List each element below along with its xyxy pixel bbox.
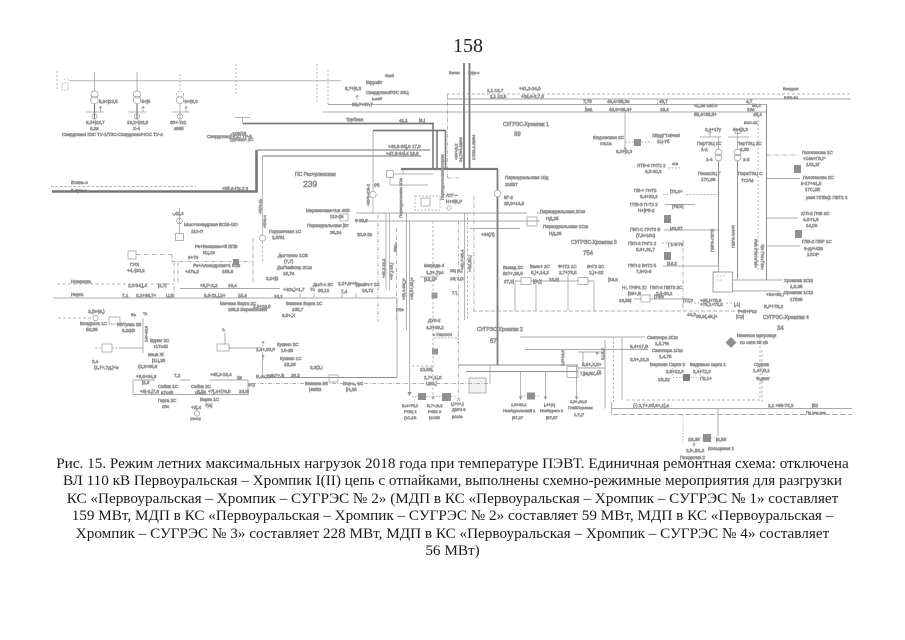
rotated labels right risers x464	[464, 213, 466, 320]
svg-text:ПЕРВ-ЗАРЯ: ПЕРВ-ЗАРЯ	[731, 225, 736, 248]
breaker frame near x390	[387, 171, 394, 178]
svg-text:|,1|: |,1|	[734, 302, 740, 307]
svg-text:1,8+30,1: 1,8+30,1	[511, 402, 527, 407]
wire: dashed sep y311	[473, 310, 750, 312]
svg-text:Варга 1С: Варга 1С	[200, 397, 220, 402]
svg-text:Галогенова 2С: Галогенова 2С	[803, 175, 834, 180]
svg-text:185,7: 185,7	[292, 307, 304, 312]
svg-text:Первоуральская 10д: Первоуральская 10д	[505, 175, 549, 180]
svg-text:3,4: 3,4	[92, 359, 99, 364]
svg-text:|(Р,)|: |(Р,)|	[533, 279, 542, 284]
wire: line y228	[470, 228, 520, 230]
wire: dashed stub top-left	[56, 71, 58, 89]
svg-text:Пеов13Ц Г: Пеов13Ц Г	[698, 171, 721, 176]
transformer T1 leg	[94, 81, 96, 91]
svg-text:НовВурегс 2: НовВурегс 2	[540, 408, 564, 413]
svg-text:ВВТулка 2В: ВВТулка 2В	[117, 322, 141, 327]
svg-text:88,12: 88,12	[318, 288, 330, 293]
svg-text:Вднег 2С: Вднег 2С	[150, 338, 170, 343]
svg-text:В,4+75,2: В,4+75,2	[402, 403, 419, 408]
svg-text:|1С2В: |1С2В	[429, 415, 440, 420]
svg-text:ДыЛ-о 2С: ДыЛ-о 2С	[313, 282, 334, 287]
svg-text:1ЛОР: 1ЛОР	[807, 252, 819, 257]
wire: dashdot y384 to left	[252, 383, 490, 385]
svg-text:Тз: Тз	[143, 311, 147, 316]
wire: T-bar Trubnaya tap	[235, 118, 250, 124]
wire: double-circuit bus lower y156	[263, 155, 422, 157]
svg-text:в,ваб: в,ваб	[372, 96, 383, 101]
PerTEC group: bars	[700, 136, 749, 138]
svg-text:Хромпик 2СШ: Хромпик 2СШ	[784, 278, 813, 283]
svg-text:(-) 2,7+,3б,5+,1|,а: (-) 2,7+,3б,5+,1|,а	[633, 403, 670, 408]
Revda cluster	[128, 251, 136, 259]
wire: thick Trubnaya line y123.5	[243, 123, 434, 125]
svg-text:|19,3: |19,3	[667, 261, 677, 266]
generator G3	[177, 114, 182, 119]
svg-text:18|: 18|	[583, 371, 589, 376]
svg-text:35,9(,48,|+: 35,9(,48,|+	[696, 314, 718, 319]
component box on line	[329, 375, 338, 382]
svg-text:|87,27: |87,27	[512, 415, 524, 420]
svg-text:6,5+,Х: 6,5+,Х	[282, 313, 295, 318]
transformer T3 windings	[176, 91, 183, 98]
svg-text:25,8+14,5: 25,8+14,5	[504, 201, 525, 206]
wire: main feeder vertical x406	[406, 213, 408, 330]
svg-text:48,9+38,4+: 48,9+38,4+	[609, 107, 632, 112]
svg-text:Мерида 4: Мерида 4	[424, 263, 445, 268]
svg-text:2,4+72,3: 2,4+72,3	[693, 369, 711, 374]
svg-text:Ре+Внешево+й ЕПВ: Ре+Внешево+й ЕПВ	[195, 243, 238, 249]
svg-text:ГВП-2 ВчТ2 5: ГВП-2 ВчТ2 5	[628, 263, 657, 268]
svg-text:+47а,2: +47а,2	[185, 269, 199, 274]
svg-text:Б2,85: Б2,85	[86, 327, 98, 332]
wire: dotted x683	[682, 415, 684, 445]
svg-text:Ц,В: Ц,В	[166, 293, 174, 298]
svg-text:5,9+j13,5: 5,9+j13,5	[99, 99, 118, 104]
wire: thick vertical pair x433/437	[432, 124, 434, 170]
wire: riser from circle to y262	[262, 241, 264, 262]
svg-text:ГлвВХоровая: ГлвВХоровая	[568, 405, 593, 410]
svg-text:1Ц-7б: 1Ц-7б	[657, 139, 670, 144]
svg-text:16,2: 16,2	[274, 294, 283, 299]
svg-text:(1С,1В: (1С,1В	[404, 415, 417, 420]
svg-text:3В| |4,|: 3В| |4,|	[450, 268, 462, 273]
svg-text:ДВР3 5: ДВР3 5	[452, 407, 466, 412]
svg-text:10,58|: 10,58|	[420, 367, 432, 372]
svg-text:ХБудГТзВче3: ХБудГТзВче3	[652, 133, 681, 138]
svg-text:7с: 7с	[310, 287, 316, 292]
svg-text:1-2: 1-2	[701, 147, 708, 152]
svg-text:РПВ| 2: РПВ| 2	[404, 409, 417, 414]
wire: dashed feeder x433	[432, 221, 434, 397]
transformer T2 leg	[136, 81, 138, 91]
svg-text:3,3(2,!: 3,3(2,!	[310, 365, 323, 370]
svg-text:28,2: 28,2	[291, 373, 300, 378]
svg-text:1В,22: 1В,22	[658, 377, 670, 382]
svg-text:+5,Р-Х,2: +5,Р-Х,2	[200, 283, 218, 288]
svg-text:-108/28: -108/28	[231, 131, 247, 136]
svg-text:(7,7): (7,7)	[284, 259, 294, 264]
svg-text:Верхняя Сарги 2: Верхняя Сарги 2	[650, 362, 686, 367]
wire: y414.5	[613, 414, 852, 416]
svg-text:18,4: 18,4	[228, 283, 237, 288]
svg-text:6,3в: 6,3в	[90, 126, 99, 131]
svg-text:2,8/31: 2,8/31	[272, 235, 285, 240]
svg-text:|72,3: |72,3	[683, 298, 693, 303]
wire: Pervouralskaya 1Ssh busbar y221	[356, 220, 540, 222]
svg-text:Вор-ь, 1С: Вор-ь, 1С	[343, 381, 364, 386]
svg-text:1,1 13,7: 1,1 13,7	[487, 88, 504, 93]
SUGRES-Khrompik 3 dashed enclosure	[473, 196, 475, 311]
svg-text:2,5+13,6: 2,5+13,6	[560, 350, 565, 366]
wire: thick line y130	[373, 130, 446, 132]
right feeder: Galogenova 1C dash-dot	[767, 154, 800, 156]
svg-text:N+j6,3: N+j6,3	[185, 99, 199, 104]
svg-text:6,2: 6,2	[197, 389, 204, 394]
wire: thick corridor vertical riser	[255, 150, 258, 192]
box component	[102, 344, 112, 352]
svg-text:43,4: 43,4	[660, 107, 669, 112]
svg-text:21557: 21557	[505, 182, 518, 187]
wire: PerTEC stubs	[709, 130, 738, 137]
svg-text:27,2|: 27,2|	[504, 279, 514, 284]
svg-text:ПВ-+ ПчТ2: ПВ-+ ПчТ2	[634, 188, 657, 193]
device: gray box	[432, 293, 438, 299]
svg-text:Ба: Ба	[131, 312, 137, 317]
right feeder: Galogenova 2C	[767, 178, 801, 180]
svg-text:+39,6-3,7,6: +39,6-3,7,6	[521, 94, 544, 99]
device: gray box feeder2	[664, 252, 671, 260]
svg-text:Горушечная 1С: Горушечная 1С	[269, 229, 302, 234]
svg-text:|49/52: |49/52	[309, 387, 322, 392]
svg-text:Кузино 2С: Кузино 2С	[277, 342, 299, 347]
svg-text:Трубная: Трубная	[346, 117, 364, 122]
svg-text:ПС Расчулинская: ПС Расчулинская	[295, 172, 336, 178]
device: gray glyph	[794, 165, 801, 173]
svg-text:г17с45: г17с45	[154, 344, 168, 349]
wire: double bus y371	[466, 371, 578, 373]
svg-text:15,4: 15,4	[238, 293, 247, 298]
wire: drop x718	[717, 409, 719, 437]
svg-text:5х7+,26,5: 5х7+,26,5	[503, 271, 523, 276]
svg-text:ДыГемВсер 2Сш: ДыГемВсер 2Сш	[277, 265, 312, 270]
svg-text:Н+|Р5-2: Н+|Р5-2	[638, 208, 655, 213]
svg-text:+4Ш,ВХ,|: +4Ш,ВХ,|	[467, 255, 472, 272]
wire: feeder row line y281	[515, 280, 594, 282]
svg-text:Гарга 2С: Гарга 2С	[158, 398, 177, 403]
svg-text:4,3+38,2: 4,3+38,2	[426, 325, 444, 330]
svg-text:17С,88: 17С,88	[701, 177, 716, 182]
svg-text:НД,25: НД,25	[549, 231, 562, 236]
svg-text:2,4+17у: 2,4+17у	[705, 127, 722, 132]
wire: riser x758 down	[757, 112, 759, 272]
svg-text:Х-4: Х-4	[133, 126, 141, 131]
svg-text:39,24: 39,24	[330, 230, 342, 235]
svg-text:+95,|+79,8: +95,|+79,8	[700, 298, 722, 303]
svg-text:+2|,4: +2|,4	[191, 405, 202, 410]
wire: y377 short bars	[133, 379, 248, 381]
node: junction circle on feeder	[494, 190, 501, 197]
svg-text:7,'|: 7,'|	[452, 290, 457, 295]
svg-text:СУГРЭС-Хромпик 1: СУГРЭС-Хромпик 1	[503, 122, 549, 128]
device: gray box feeder	[664, 215, 671, 223]
svg-text:1-2: 1-2	[743, 157, 750, 162]
svg-text:|2,9: |2,9	[142, 380, 150, 385]
svg-text:34,7/64-28/64: 34,7/64-28/64	[458, 137, 463, 162]
svg-text:ввыв Ж: ввыв Ж	[148, 352, 165, 357]
svg-text:2в: 2в	[237, 375, 243, 380]
svg-text:ДУ0-2: ДУ0-2	[428, 318, 441, 323]
svg-text:6,4+20,2: 6,4+20,2	[640, 194, 658, 199]
breaker boxes row	[521, 278, 531, 285]
svg-text:+48,5-34j,6 17,9: +48,5-34j,6 17,9	[388, 144, 421, 149]
wire: corner riser x612	[611, 402, 613, 415]
svg-text:5,9+,Х,5+: 5,9+,Х,5+	[582, 362, 602, 367]
svg-text:(7,5+10с): (7,5+10с)	[636, 233, 656, 238]
svg-text:+14в+ГВ,Р: +14в+ГВ,Р	[803, 156, 825, 161]
svg-text:Ъ: Ъ	[222, 327, 225, 332]
svg-text:ПераТЭЦ С: ПераТЭЦ С	[738, 171, 763, 176]
transformer T2 secondary feeder	[136, 104, 138, 119]
node: left dotted box	[62, 83, 68, 90]
transformer T3 leg	[179, 81, 181, 91]
right feeder: GLV-2 PVR 1C	[767, 245, 801, 247]
svg-text:Мыс+зонадрвая ВСШ-1Ю: Мыс+зонадрвая ВСШ-1Ю	[184, 222, 238, 227]
svg-text:Галогенова 1С: Галогенова 1С	[802, 150, 833, 155]
svg-text:ВчГ2 2С: ВчГ2 2С	[587, 264, 605, 269]
svg-text:1В,35: 1В,35	[688, 437, 700, 442]
svg-text:1б| 7,(2: 1б| 7,(2	[450, 276, 464, 281]
device: Kourovskaya gray box	[634, 139, 641, 146]
svg-text:16,58|: 16,58|	[619, 298, 631, 303]
svg-text:Свердловс! КЗС ТУ-1/ТЗС-Сверд: Свердловс! КЗС ТУ-1/ТЗС-Свердловс!ЧОС ТУ…	[62, 132, 163, 137]
svg-text:14,00: 14,00	[806, 223, 818, 228]
svg-text:Светлора 2Сш: Светлора 2Сш	[647, 335, 678, 340]
wire: corner verticals	[263, 298, 398, 378]
svg-text:|16,1Р: |16,1Р	[424, 277, 437, 282]
svg-text:з865: з865	[174, 126, 184, 131]
svg-text:а: а	[596, 350, 599, 355]
svg-text:17С,2Е: 17С,2Е	[805, 187, 820, 192]
svg-text:239: 239	[303, 179, 317, 189]
device: gray box on tie	[527, 393, 535, 400]
wire: 110kV top bus	[70, 80, 341, 82]
svg-text:5,7+j6,3: 5,7+j6,3	[345, 86, 362, 91]
svg-text:-,42,4: -,42,4	[172, 211, 184, 216]
wire: drops to dashed border	[515, 274, 594, 311]
svg-text:110-П: 110-П	[191, 229, 203, 234]
wire: double-circuit bus upper y150	[258, 149, 431, 151]
wire: bus y377 left section	[263, 377, 398, 379]
wire: long double line bottom right y408.5	[612, 408, 853, 410]
breaker box Pervomayskaya	[176, 234, 184, 241]
node: Gorushechnaya circle	[260, 235, 266, 241]
svg-text:57: 57	[490, 339, 497, 345]
svg-text:9,2фВ: 9,2фВ	[122, 328, 135, 333]
wire: vertical x622	[621, 337, 623, 400]
svg-text:+ЕУФ-ЮВ-2: +ЕУФ-ЮВ-2	[366, 183, 371, 206]
svg-text:Вандыш: Вандыш	[783, 86, 799, 91]
svg-text:+39,)+34,) сВ): +39,)+34,) сВ)	[760, 244, 765, 270]
transformer T2 windings	[133, 91, 140, 98]
svg-text:89: 89	[514, 132, 521, 138]
svg-text:1,5,35: 1,5,35	[790, 284, 803, 289]
device: gray boxes at feet	[418, 393, 426, 400]
svg-text:Судник: Судник	[754, 362, 769, 367]
svg-text:5Г-2: 5Г-2	[504, 195, 513, 200]
svg-text:20,9-2в: 20,9-2в	[357, 232, 373, 237]
svg-text:Первоуральская 2Сш: Первоуральская 2Сш	[398, 178, 403, 218]
wire: tick above bus at T1	[94, 72, 96, 81]
svg-text:|Н,25: |Н,25	[346, 387, 357, 392]
svg-text:Трубнал 2С: Трубнал 2С	[229, 137, 254, 142]
svg-text:44,3: 44,3	[687, 312, 696, 317]
device: gray box2	[432, 349, 438, 355]
wire: vertical x605	[604, 340, 606, 409]
wire: main feeder vertical x409.5 arrow bottom	[409, 221, 411, 396]
svg-text:(0,2+35,8: (0,2+35,8	[138, 364, 158, 369]
svg-text:+38,9+34,3 ВВ4: +38,9+34,3 ВВ4	[753, 238, 758, 268]
svg-text:2,1 13,8: 2,1 13,8	[490, 94, 507, 99]
wire: dashdot feeder x458.5	[458, 221, 460, 398]
svg-text:Первоуральская-сопряж: Первоуральская-сопряж	[440, 154, 445, 200]
svg-text:1,4,75: 1,4,75	[659, 354, 672, 359]
svg-text:|6,|: |6,|	[419, 118, 425, 123]
svg-text:Пе вяс кая: Пе вяс кая	[806, 410, 826, 415]
svg-text:+а8,7+,В: +а8,7+,В	[266, 373, 284, 378]
node: circle x373	[372, 131, 374, 213]
svg-text:8,5-21,|,2+: 8,5-21,|,2+	[204, 293, 226, 298]
generator G1	[92, 114, 97, 119]
svg-text:Свердловс!РЗС 30Ц: Свердловс!РЗС 30Ц	[366, 90, 409, 95]
svg-text:Сабик 1С: Сабик 1С	[158, 384, 179, 389]
wire: inner vertical x262	[262, 156, 264, 235]
svg-text:+47,)-19,): +47,)-19,)	[389, 262, 394, 280]
svg-text:+8,5+34,8: +8,5+34,8	[136, 374, 157, 379]
svg-text:|18,в: |18,в	[608, 277, 618, 282]
svg-text:+5б,9-Пв,2 п: +5б,9-Пв,2 п	[222, 186, 249, 191]
svg-text:|Ср|: |Ср|	[736, 314, 744, 319]
wire: thick vertical x445.5	[445, 131, 447, 170]
svg-text:7,5+2-8: 7,5+2-8	[636, 269, 652, 274]
svg-text:2е1: 2е1	[585, 107, 593, 112]
svg-text:185,8: 185,8	[222, 269, 234, 274]
svg-text:+34+38,7: +34+38,7	[766, 292, 786, 297]
svg-text:|73,2+: |73,2+	[670, 189, 683, 194]
svg-text:|вУ,4в: |вУ,4в	[452, 414, 463, 419]
wire: double bus y365	[458, 364, 578, 366]
svg-text:Р4В2 3: Р4В2 3	[428, 409, 442, 414]
wire: dashed vertical at x317	[316, 64, 318, 102]
svg-text:+34(Л): +34(Л)	[481, 232, 495, 237]
svg-text:2,9+18,8: 2,9+18,8	[253, 304, 271, 309]
svg-text:Выезд 2С: Выезд 2С	[503, 265, 524, 270]
svg-text:НовАуральский 1: НовАуральский 1	[503, 408, 536, 413]
svg-text:7,2: 7,2	[174, 373, 181, 378]
svg-text:Важена Барга 1С: Важена Барга 1С	[286, 301, 323, 306]
svg-text:1,7+,1|,8: 1,7+,1|,8	[424, 375, 442, 380]
svg-text:ГВП-3 ПВТ3 2С: ГВП-3 ПВТ3 2С	[650, 285, 683, 290]
svg-text:8,)+,14,2: 8,)+,14,2	[531, 270, 549, 275]
wire: tick above bus at T3	[179, 74, 181, 81]
svg-text:+47,6-34j,4 15,8: +47,6-34j,4 15,8	[386, 151, 419, 156]
svg-text:+40х,)+1,7: +40х,)+1,7	[283, 287, 305, 292]
svg-text:Коуровская 2С: Коуровская 2С	[593, 135, 625, 140]
svg-text:46,4+38,3е: 46,4+38,3е	[607, 99, 630, 104]
svg-text:18,72: 18,72	[362, 288, 374, 293]
svg-text:63+-7к2: 63+-7к2	[170, 120, 187, 125]
svg-text:пЦ,1в: пЦ,1в	[203, 250, 216, 255]
wire: long line y105	[328, 104, 767, 106]
svg-text:41,1: 41,1	[399, 118, 408, 123]
svg-text:1,7,(7: 1,7,(7	[574, 412, 585, 417]
wire: Khrompik 1SSh bus	[733, 290, 781, 292]
svg-text:Елань-с: Елань-с	[71, 180, 88, 185]
svg-text:1,2+,7р4: 1,2+,7р4	[426, 270, 444, 275]
svg-text:В,Р+7В,2: В,Р+7В,2	[764, 304, 784, 309]
svg-text:2,5-,В1,3: 2,5-,В1,3	[686, 448, 705, 453]
svg-text:3,(3+j6,): 3,(3+j6,)	[88, 309, 105, 314]
wire: tick x657	[657, 99, 659, 105]
svg-text:Новенска: Новенска	[71, 279, 91, 284]
svg-text:+5|-3,|7,6: +5|-3,|7,6	[140, 389, 159, 394]
svg-text:+41,2-24,5: +41,2-24,5	[519, 86, 541, 91]
svg-text:2,3-34,|,4: 2,3-34,|,4	[128, 283, 147, 288]
breaker box left	[340, 214, 348, 221]
svg-text:Важена 2С: Важена 2С	[305, 381, 329, 386]
svg-text:Ваяс+ 2С: Ваяс+ 2С	[530, 264, 551, 269]
svg-text:|1,7|: |1,7|	[158, 283, 167, 288]
wire: dashed frame Sarga right edge	[759, 337, 761, 400]
transformer PerTEC T2	[737, 137, 739, 149]
svg-text:С|: С|	[597, 369, 601, 374]
svg-text:|1Ц,25: |1Ц,25	[152, 358, 166, 363]
svg-text:СУГРЭС-Хромпик 2: СУГРЭС-Хромпик 2	[477, 327, 523, 333]
svg-text:1Л-25: 1Л-25	[281, 348, 293, 353]
wire: long line y112	[323, 111, 767, 113]
svg-text:Вондрата 1С: Вондрата 1С	[80, 321, 108, 326]
svg-text:Ефр-з: Ефр-з	[468, 70, 480, 75]
svg-text:Вагаи: Вагаи	[449, 70, 460, 75]
transformer PerTEC T1	[718, 137, 720, 149]
svg-text:ГПВ-3 П-Т2 2: ГПВ-3 П-Т2 2	[630, 202, 658, 207]
svg-text:5+j5: 5+j5	[142, 99, 151, 104]
svg-text:1,1 +66-73,3: 1,1 +66-73,3	[768, 403, 794, 408]
svg-text:НД,25: НД,25	[546, 216, 559, 221]
wire: PerTEC feeder x737 down	[737, 161, 739, 279]
svg-text:п3с: п3с	[162, 404, 170, 409]
wire: dashdot vertical x396.6	[396, 228, 398, 320]
svg-text:17535: 17535	[790, 297, 803, 302]
svg-text:Видимые сарги 1: Видимые сарги 1	[690, 362, 726, 367]
ATG dashed frame	[415, 196, 440, 210]
svg-text:46,7: 46,7	[659, 99, 668, 104]
svg-text:3+73: 3+73	[188, 255, 199, 260]
svg-text:Дыгтенно 1СВ: Дыгтенно 1СВ	[278, 253, 308, 258]
wire: vertical x386 with rotated labels	[385, 213, 387, 290]
wire: dashdot risers x174 x178	[174, 262, 178, 298]
node: 110kV bus left endpoint hook	[64, 79, 71, 81]
svg-text:|8,В5: |8,В5	[716, 437, 727, 442]
wire: dashdot frame SUGRES-1 left	[447, 94, 449, 178]
svg-text:Ефрейт: Ефрейт	[366, 79, 382, 85]
svg-text:Кузино 1С: Кузино 1С	[280, 356, 302, 361]
transformer T1 windings	[91, 91, 98, 98]
svg-text:Первоуральская |Вт: Первоуральская |Вт	[307, 223, 349, 228]
device: gray box	[233, 259, 239, 265]
svg-text:СУГРЭС-Хромпик 4: СУГРЭС-Хромпик 4	[763, 315, 809, 321]
svg-text:|52: |52	[812, 403, 819, 408]
